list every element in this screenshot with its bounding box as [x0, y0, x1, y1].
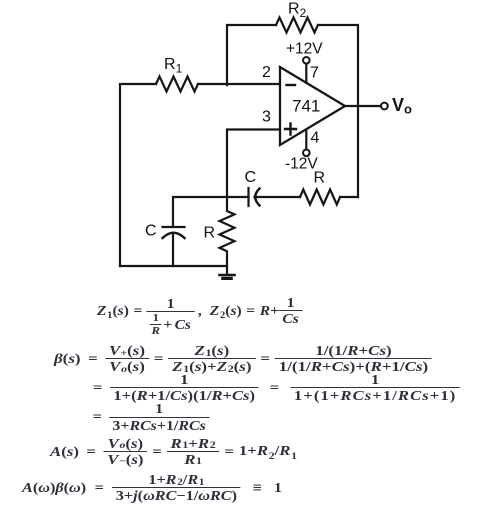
svg-text:4: 4 — [311, 130, 320, 147]
wire: series capacitor to series R — [255, 196, 301, 198]
svg-text:C: C — [245, 169, 257, 186]
equation line 6: Barkhausen condition — [22, 472, 282, 503]
output terminal Vo — [381, 103, 388, 110]
equation line 4 — [88, 401, 209, 432]
equation line 3 — [88, 372, 460, 403]
wire: feedback top-left vertical from node 2 up to R2 — [227, 25, 276, 85]
wire: R2 right side down to output node — [318, 25, 358, 197]
op-amp non-inverting input mark — [285, 124, 296, 135]
svg-text:+12V: +12V — [286, 41, 323, 58]
resistor R series — [300, 190, 340, 205]
circuit schematic — [0, 0, 482, 300]
op-amp inverting input mark — [287, 84, 296, 86]
-12V supply terminal — [303, 150, 310, 157]
ground — [220, 275, 235, 278]
svg-text:R1: R1 — [164, 56, 183, 76]
pin 7 lead — [305, 64, 307, 83]
output wire — [345, 105, 381, 107]
svg-text:7: 7 — [310, 65, 319, 82]
wire: pin 3 left then down to RC node — [227, 130, 280, 198]
resistor R1 — [156, 77, 198, 92]
wire: left branch vertical + lead into R1 — [120, 84, 156, 266]
svg-text:2: 2 — [262, 64, 271, 81]
equation line 2: beta(s) — [54, 343, 432, 374]
pin 4 lead — [305, 130, 307, 150]
equation line 5: A(s) — [50, 436, 297, 467]
svg-text:C: C — [145, 223, 157, 240]
+12V supply terminal — [303, 57, 310, 64]
wire: bottom ground rail — [120, 265, 227, 267]
wire: R1 to inverting input pin 2 — [198, 83, 280, 85]
svg-text:Vo: Vo — [392, 95, 412, 117]
capacitor C1 (shunt) — [163, 227, 185, 238]
svg-text:R: R — [314, 170, 326, 187]
capacitor C2 (series) — [249, 188, 260, 206]
svg-text:3: 3 — [262, 109, 271, 126]
svg-text:R: R — [204, 225, 216, 242]
wire: C1 bottom to ground rail — [172, 234, 174, 267]
svg-text:741: 741 — [292, 97, 320, 116]
resistor R shunt vertical with leads — [220, 197, 235, 274]
wire: mid horizontal from shunt-C corner to series capacitor — [173, 197, 249, 227]
equation line 1: Z1(s), Z2(s) definitions — [97, 290, 302, 331]
resistor R2 — [276, 18, 318, 33]
wire: series R to output node vertical — [340, 196, 358, 198]
svg-text:R2: R2 — [288, 1, 307, 21]
op-amp U1 triangle — [280, 67, 345, 145]
